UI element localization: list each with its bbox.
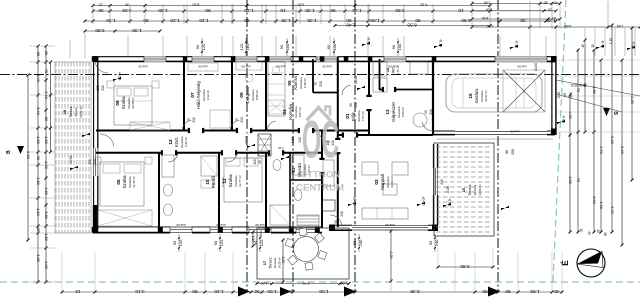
svg-text:2.80: 2.80 <box>95 28 105 33</box>
svg-text:9.35: 9.35 <box>298 2 305 6</box>
extension lines top far left <box>69 40 71 58</box>
svg-text:-0.08: -0.08 <box>446 186 450 193</box>
svg-text:3.93: 3.93 <box>592 196 596 203</box>
svg-text:8.55: 8.55 <box>407 22 417 27</box>
svg-text:210: 210 <box>240 117 244 123</box>
svg-text:üvd 90: üvd 90 <box>176 223 185 227</box>
svg-text:1.20: 1.20 <box>244 8 254 13</box>
axis arrow x247 <box>238 287 250 297</box>
svg-text:4.08: 4.08 <box>565 24 572 28</box>
right vdim 1 <box>569 95 571 232</box>
garage south wall <box>433 130 555 132</box>
dim top right row1 <box>472 3 560 5</box>
svg-text:90: 90 <box>352 240 357 245</box>
svg-text:-0.48: -0.48 <box>601 40 605 48</box>
svg-text:90: 90 <box>143 18 149 23</box>
svg-text:5.48: 5.48 <box>410 289 420 294</box>
extension lines left <box>30 45 55 47</box>
svg-text:1.30: 1.30 <box>305 8 315 13</box>
svg-text:120: 120 <box>245 43 250 50</box>
svg-text:×: × <box>523 89 526 95</box>
terrace 17 small dims <box>252 232 254 246</box>
svg-text:8.88 m²: 8.88 m² <box>255 90 259 100</box>
terrace 17 with table <box>257 228 349 279</box>
svg-text:Kerámia: Kerámia <box>273 257 277 268</box>
svg-text:120: 120 <box>219 239 224 246</box>
svg-text:üvd 90: üvd 90 <box>517 65 526 69</box>
svg-text:Szoba: Szoba <box>228 174 233 187</box>
garage west wall <box>432 59 434 134</box>
flag terasz17 <box>501 206 509 210</box>
dimension row top 2 <box>85 20 556 22</box>
svg-text:2.70: 2.70 <box>283 289 293 294</box>
svg-text:Terasz: Terasz <box>269 257 273 268</box>
svg-text:90: 90 <box>172 240 177 245</box>
flag +0.54 room08 <box>113 77 121 81</box>
svg-text:100: 100 <box>326 140 330 146</box>
dim 2.80 <box>438 266 493 268</box>
property boundary teal horizontal <box>0 281 640 283</box>
svg-text:30: 30 <box>125 2 129 6</box>
svg-text:3.60: 3.60 <box>36 177 41 185</box>
leader lines right <box>556 80 640 96</box>
svg-text:Konyha: Konyha <box>288 104 293 120</box>
svg-text:70: 70 <box>576 178 580 182</box>
furniture extras upper rooms <box>188 63 218 71</box>
svg-text:90: 90 <box>391 44 396 49</box>
svg-text:90: 90 <box>330 8 336 13</box>
svg-text:45: 45 <box>554 289 560 294</box>
svg-text:-0.03: -0.03 <box>367 37 371 45</box>
svg-text:240: 240 <box>434 239 439 246</box>
svg-text:30: 30 <box>98 8 104 13</box>
svg-text:210: 210 <box>101 85 105 91</box>
wardrobe room 08 <box>130 122 170 130</box>
dim top right row2 <box>472 10 556 12</box>
svg-text:33.97 m²: 33.97 m² <box>484 90 488 102</box>
north wall with windows <box>93 56 556 58</box>
svg-text:90: 90 <box>415 18 421 23</box>
interior door openings <box>190 129 202 132</box>
dimension row top 3 right <box>335 25 490 27</box>
svg-text:13: 13 <box>385 109 390 115</box>
flag pm0.00 nappali <box>348 202 356 206</box>
svg-text:240: 240 <box>340 211 344 217</box>
svg-text:4.70: 4.70 <box>610 206 614 213</box>
svg-text:1.00: 1.00 <box>341 281 348 285</box>
flag -0.18 <box>434 44 442 48</box>
svg-text:240: 240 <box>298 137 302 143</box>
svg-text:B: B <box>612 111 618 115</box>
svg-text:1.10: 1.10 <box>36 208 41 216</box>
site axis line vertical x355 <box>354 0 356 292</box>
svg-text:90: 90 <box>424 110 428 114</box>
svg-text:Dolgozó: Dolgozó <box>245 86 250 103</box>
svg-text:6.58 m²: 6.58 m² <box>401 107 405 117</box>
svg-text:16.81 m²: 16.81 m² <box>79 106 83 118</box>
dimension row top 1 <box>93 10 490 12</box>
svg-text:Kavics: Kavics <box>74 107 78 116</box>
svg-text:75: 75 <box>314 82 318 86</box>
svg-text:04: 04 <box>282 109 287 115</box>
svg-text:210: 210 <box>192 117 196 123</box>
svg-text:90: 90 <box>505 289 511 294</box>
svg-text:150: 150 <box>511 149 515 155</box>
svg-text:150: 150 <box>397 43 402 50</box>
svg-text:-0.38: -0.38 <box>515 40 519 48</box>
svg-text:75: 75 <box>235 118 239 122</box>
svg-text:38: 38 <box>603 232 607 236</box>
svg-text:16: 16 <box>462 188 466 192</box>
svg-text:4.70: 4.70 <box>599 146 603 153</box>
svg-text:+0.54: +0.54 <box>118 71 122 80</box>
svg-text:90: 90 <box>505 150 509 154</box>
axis arrow x355 <box>344 287 356 297</box>
svg-text:1.00: 1.00 <box>44 261 49 269</box>
svg-text:+0.52: +0.52 <box>69 155 73 164</box>
svg-text:240: 240 <box>440 179 444 185</box>
svg-text:90: 90 <box>205 8 211 13</box>
svg-text:4.10: 4.10 <box>135 289 145 294</box>
svg-text:1.00: 1.00 <box>44 161 49 169</box>
section marker B right <box>603 108 610 116</box>
svg-text:2.80: 2.80 <box>460 264 470 269</box>
bed room 06 <box>100 162 144 206</box>
svg-text:15: 15 <box>99 2 103 6</box>
svg-text:Kerámia: Kerámia <box>473 184 477 195</box>
svg-text:10.54: 10.54 <box>244 136 248 144</box>
svg-text:1.10: 1.10 <box>278 146 284 150</box>
svg-text:1.50: 1.50 <box>617 24 624 28</box>
dimension row bottom <box>62 291 562 293</box>
svg-text:3.40: 3.40 <box>36 107 41 115</box>
site axis line horizontal y75 <box>0 74 640 76</box>
svg-text:1.88: 1.88 <box>36 254 41 262</box>
svg-text:90: 90 <box>349 103 353 107</box>
svg-text:03: 03 <box>291 167 296 173</box>
flag +0.52 terrace18 <box>70 166 78 170</box>
svg-text:2.90: 2.90 <box>461 18 471 23</box>
svg-text:Kamra: Kamra <box>293 76 298 90</box>
svg-text:1.20: 1.20 <box>199 18 209 23</box>
svg-text:14.45 m²: 14.45 m² <box>132 176 136 188</box>
svg-text:33.69 m²: 33.69 m² <box>390 176 394 188</box>
svg-text:50: 50 <box>254 289 260 294</box>
svg-text:150: 150 <box>88 159 92 165</box>
svg-text:9.40: 9.40 <box>26 151 31 160</box>
svg-text:üvd 90: üvd 90 <box>241 65 250 69</box>
svg-text:30: 30 <box>520 18 526 23</box>
svg-text:1.00: 1.00 <box>568 111 572 118</box>
svg-text:±0.00: ±0.00 <box>422 197 426 206</box>
interior walls <box>183 59 185 131</box>
svg-text:3.40: 3.40 <box>44 91 49 99</box>
svg-text:2.50: 2.50 <box>395 8 405 13</box>
bath room 10 fixtures <box>162 155 174 177</box>
south wall nappali <box>330 224 438 226</box>
svg-text:15: 15 <box>581 44 585 48</box>
east wall nappali <box>432 144 434 230</box>
svg-text:11: 11 <box>222 178 227 183</box>
hall cabinet <box>323 160 334 186</box>
svg-text:90: 90 <box>334 220 338 224</box>
svg-text:20: 20 <box>548 8 552 12</box>
svg-text:73: 73 <box>576 88 580 92</box>
svg-text:Fürdő: Fürdő <box>211 176 216 188</box>
svg-text:1.50: 1.50 <box>36 136 41 144</box>
right vdim 2 <box>577 50 579 232</box>
entry steps <box>297 215 319 217</box>
svg-text:90: 90 <box>195 44 200 49</box>
dim 2.20 vertical <box>390 231 392 281</box>
svg-text:BNN 62'21: BNN 62'21 <box>570 83 586 87</box>
svg-text:15: 15 <box>75 289 81 294</box>
svg-text:90: 90 <box>253 240 258 245</box>
svg-text:5.00: 5.00 <box>486 8 493 12</box>
svg-text:±0.00: ±0.00 <box>353 197 357 206</box>
svg-text:2.40: 2.40 <box>346 22 356 27</box>
svg-text:12: 12 <box>168 139 173 145</box>
room 13 fixtures <box>373 62 387 76</box>
garage apron <box>455 131 547 136</box>
extension lines right <box>556 59 640 61</box>
svg-text:CENTRUM: CENTRUM <box>296 183 344 194</box>
svg-text:06: 06 <box>116 179 121 185</box>
svg-text:90: 90 <box>244 18 250 23</box>
svg-text:1.50: 1.50 <box>44 136 49 144</box>
svg-text:üvd 90: üvd 90 <box>255 223 264 227</box>
svg-text:4.40: 4.40 <box>599 201 603 208</box>
property boundary teal vertical east <box>553 0 566 282</box>
site axis line vertical x247 <box>246 0 248 292</box>
svg-text:3.80: 3.80 <box>44 211 49 219</box>
terrace 18 hatch <box>55 62 57 233</box>
flag 10 90 elok <box>357 86 365 90</box>
svg-text:160: 160 <box>96 85 100 91</box>
flag -0.38 <box>510 45 518 49</box>
door swing arcs <box>95 63 108 73</box>
flag -0.03 terasz16 <box>443 203 451 207</box>
bed room 08 <box>114 86 152 125</box>
west wall <box>93 57 95 234</box>
svg-text:15: 15 <box>468 93 473 99</box>
svg-text:Közl.: Közl. <box>174 137 179 147</box>
right vdim 7 <box>621 60 623 245</box>
svg-text:14.28 m²: 14.28 m² <box>131 97 135 109</box>
svg-text:45: 45 <box>587 231 591 235</box>
svg-text:-0.03: -0.03 <box>448 198 452 206</box>
right vdim 8 <box>631 28 633 180</box>
svg-text:1.00: 1.00 <box>484 0 491 4</box>
svg-text:15: 15 <box>596 229 600 233</box>
svg-text:üvd 90: üvd 90 <box>216 223 225 227</box>
left vdim chain 2 <box>45 46 47 282</box>
svg-text:120: 120 <box>178 239 183 246</box>
site axis line vertical x498 <box>497 0 499 292</box>
dim top right row4 <box>472 26 640 28</box>
left vdim long <box>27 75 29 240</box>
svg-text:45: 45 <box>554 0 558 4</box>
svg-text:12.77 m²: 12.77 m² <box>238 175 242 187</box>
svg-text:1.45: 1.45 <box>307 18 317 23</box>
svg-text:05: 05 <box>287 80 292 86</box>
svg-text:45: 45 <box>552 16 556 20</box>
svg-text:10,90: 10,90 <box>534 63 538 71</box>
svg-text:Elők.: Elők. <box>351 111 356 121</box>
svg-text:Garázs: Garázs <box>474 88 479 104</box>
svg-text:90: 90 <box>346 18 352 23</box>
svg-text:08: 08 <box>115 100 120 106</box>
svg-text:1.30: 1.30 <box>132 28 142 33</box>
svg-text:B: B <box>6 150 12 154</box>
svg-text:09: 09 <box>239 92 244 98</box>
svg-text:1.45: 1.45 <box>352 8 362 13</box>
svg-text:Gépészet: Gépészet <box>391 101 396 121</box>
svg-text:10: 10 <box>458 8 464 13</box>
svg-text:1.35: 1.35 <box>281 18 291 23</box>
attic ladder corridor <box>258 134 271 156</box>
svg-text:Terasz: Terasz <box>468 184 472 195</box>
dimension row top 3 left <box>85 30 160 32</box>
svg-text:2.70: 2.70 <box>303 281 310 285</box>
flag -0.48 <box>596 45 604 49</box>
svg-text:17: 17 <box>262 260 267 265</box>
svg-text:210: 210 <box>319 81 323 87</box>
svg-text:150: 150 <box>285 43 290 50</box>
svg-text:120: 120 <box>259 239 264 246</box>
svg-text:18: 18 <box>63 110 67 114</box>
svg-text:150: 150 <box>332 43 337 50</box>
svg-text:4.80: 4.80 <box>44 187 49 195</box>
dimension top left small <box>93 5 490 7</box>
svg-text:1.00: 1.00 <box>261 281 268 285</box>
svg-text:Szoba: Szoba <box>122 175 127 188</box>
svg-text:120: 120 <box>253 159 257 165</box>
svg-text:1.68 m²: 1.68 m² <box>303 78 307 88</box>
svg-text:3.85: 3.85 <box>482 289 492 294</box>
svg-text:90: 90 <box>213 240 218 245</box>
flag -0.03 garage east <box>557 120 565 124</box>
svg-text:Nappali: Nappali <box>380 174 385 190</box>
svg-text:.80: .80 <box>544 0 549 4</box>
dim top right row3 <box>472 18 560 20</box>
svg-text:10,90: 10,90 <box>354 76 358 84</box>
car in garage <box>446 74 542 112</box>
flag -0.63 <box>627 46 635 50</box>
svg-text:-0.18: -0.18 <box>439 39 443 47</box>
svg-text:7.67 m²: 7.67 m² <box>361 111 365 121</box>
svg-text:1.50: 1.50 <box>44 233 49 241</box>
svg-text:02: 02 <box>374 179 379 185</box>
left vdim chain 1 <box>37 46 39 282</box>
svg-text:13.38 m²: 13.38 m² <box>478 184 482 195</box>
svg-text:4.66 m²: 4.66 m² <box>184 137 188 147</box>
kitchen counter <box>268 62 285 116</box>
svg-text:1.00: 1.00 <box>319 289 329 294</box>
garage east wall <box>551 57 553 136</box>
svg-text:210: 210 <box>354 102 358 108</box>
svg-text:210: 210 <box>429 109 433 115</box>
window pair dim lines bottom <box>178 234 180 252</box>
terrace 17 dim line <box>257 283 349 285</box>
section marker B left <box>17 146 24 154</box>
flag pm0.00 nappali b <box>417 202 425 206</box>
site axis line vertical x293 <box>292 0 294 292</box>
svg-text:120: 120 <box>201 43 206 50</box>
svg-text:90: 90 <box>258 160 262 164</box>
svg-text:90: 90 <box>428 240 433 245</box>
svg-text:1.00: 1.00 <box>281 257 285 263</box>
wc fixtures <box>273 160 281 171</box>
right vdim 6 <box>611 25 613 232</box>
svg-text:8.20: 8.20 <box>193 2 200 6</box>
svg-text:15: 15 <box>579 228 583 232</box>
garage cross <box>503 70 545 112</box>
svg-text:üvd 90: üvd 90 <box>276 65 285 69</box>
svg-text:80: 80 <box>239 289 245 294</box>
svg-text:1.20: 1.20 <box>609 38 613 44</box>
svg-text:210: 210 <box>93 159 97 165</box>
svg-text:90: 90 <box>279 44 284 49</box>
svg-text:75: 75 <box>44 69 49 73</box>
svg-text:240: 240 <box>358 239 363 246</box>
svg-text:1.55: 1.55 <box>530 289 540 294</box>
extension lines top right <box>471 1 473 29</box>
svg-text:15: 15 <box>591 44 595 48</box>
svg-text:210: 210 <box>331 140 335 146</box>
svg-text:90: 90 <box>192 289 198 294</box>
dim small bottom left <box>282 240 284 282</box>
svg-text:1.20: 1.20 <box>214 289 224 294</box>
right vdim 5 <box>600 60 602 232</box>
watermark otthon centrum <box>296 107 344 194</box>
svg-text:1.05: 1.05 <box>370 18 380 23</box>
svg-text:üvd 90: üvd 90 <box>198 65 207 69</box>
svg-text:9.12 m²: 9.12 m² <box>206 90 210 100</box>
right vdim 3 <box>584 40 586 132</box>
svg-text:1.20: 1.20 <box>630 96 634 103</box>
compass north arrow <box>577 249 605 277</box>
extension lines top <box>92 4 94 24</box>
svg-text:15: 15 <box>36 227 41 231</box>
left small ticks <box>50 62 52 152</box>
svg-text:üvd 90: üvd 90 <box>385 223 394 227</box>
svg-text:Szoba: Szoba <box>121 96 126 109</box>
svg-text:Terasz: Terasz <box>69 106 73 117</box>
svg-text:120: 120 <box>239 43 244 50</box>
extension lines bottom <box>61 252 63 291</box>
svg-text:10: 10 <box>280 8 286 13</box>
svg-text:üvd 90: üvd 90 <box>322 65 331 69</box>
svg-text:1.30: 1.30 <box>106 18 116 23</box>
svg-text:60: 60 <box>326 44 331 49</box>
svg-text:75: 75 <box>187 118 191 122</box>
svg-text:10: 10 <box>205 179 210 185</box>
flag -0.03 top <box>362 42 370 46</box>
svg-text:3.00: 3.00 <box>568 176 572 183</box>
svg-text:üvd 90: üvd 90 <box>510 130 519 134</box>
svg-text:1.55: 1.55 <box>291 137 295 143</box>
svg-text:4.00: 4.00 <box>487 24 494 28</box>
svg-text:6.40: 6.40 <box>620 146 624 153</box>
terrace 16 hatch <box>434 143 494 236</box>
right vdim 4 <box>593 50 595 232</box>
svg-text:01: 01 <box>345 113 350 119</box>
svg-text:1.20: 1.20 <box>170 18 180 23</box>
svg-text:üvd 90: üvd 90 <box>138 65 147 69</box>
svg-text:+0.02: +0.02 <box>259 230 263 238</box>
svg-text:8.35: 8.35 <box>482 16 489 20</box>
